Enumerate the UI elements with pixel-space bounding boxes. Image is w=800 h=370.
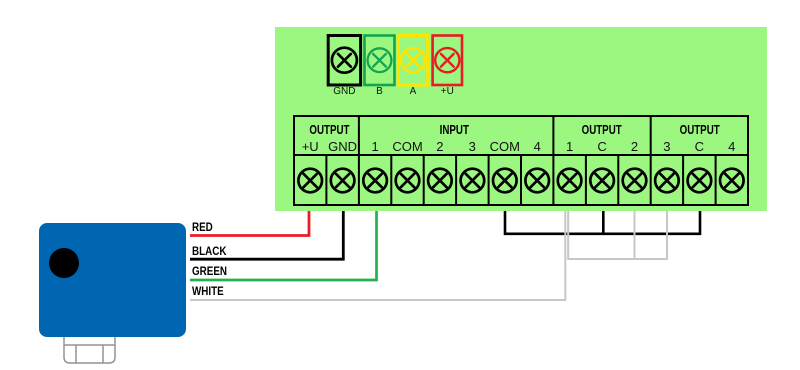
label terminal 3 1 <box>359 139 391 154</box>
screw cell divider 12 <box>682 155 684 205</box>
top terminal box B <box>365 36 395 86</box>
label terminal 9 1 <box>553 139 585 154</box>
blue sensor body <box>39 223 186 337</box>
label terminal 12 3 <box>651 139 683 154</box>
wire GREEN (sensor to terminal) <box>190 211 377 280</box>
top terminal box A <box>398 36 427 86</box>
terminal strip outer frame <box>294 116 748 205</box>
label top terminal +U <box>425 86 470 97</box>
screw terminal 3 (1) <box>363 169 387 193</box>
label group header OUTPUT (8-11) <box>564 123 640 137</box>
screw cell divider 6 <box>488 155 490 205</box>
screw terminal 10 (C) <box>590 169 614 193</box>
screw cell divider 9 <box>585 155 587 205</box>
label top terminal A <box>390 86 435 97</box>
screw terminal 7 (COM) <box>493 169 517 193</box>
label terminal 2 GND <box>326 139 358 154</box>
wire BLACK (sensor to terminal) <box>190 211 343 259</box>
screw cell divider 3 <box>390 155 392 205</box>
screw terminal 11 (2) <box>623 169 647 193</box>
label wire WHITE <box>192 284 224 298</box>
label terminal 1 +U <box>294 139 326 154</box>
screw cell divider 10 <box>617 155 619 205</box>
label terminal 13 C <box>683 139 715 154</box>
label group header INPUT (2-8) <box>379 123 531 137</box>
group divider at cell 2 <box>358 116 360 205</box>
label terminal 10 C <box>586 139 618 154</box>
label group header OUTPUT (0-2) <box>304 123 355 137</box>
screw terminal 14 (4) <box>720 169 744 193</box>
screw cell divider 5 <box>455 155 457 205</box>
screw cell divider 4 <box>423 155 425 205</box>
screw cell divider 7 <box>520 155 522 205</box>
label top terminal GND <box>320 86 368 97</box>
wire gray jumper bus (1-2-3) <box>568 211 667 259</box>
label terminal 14 4 <box>716 139 748 154</box>
screw terminal 2 (GND) <box>331 169 355 193</box>
wire black jumper bus (COM-C-C) <box>505 211 700 234</box>
label wire RED <box>192 220 213 234</box>
label top terminal B <box>357 86 403 97</box>
screw cell divider 1 <box>325 155 327 205</box>
label terminal 6 3 <box>456 139 488 154</box>
screw terminal 1 (+U) <box>298 169 322 193</box>
screw cell divider 13 <box>715 155 717 205</box>
label terminal 11 2 <box>618 139 650 154</box>
top terminal box +U <box>433 36 462 86</box>
screw terminal 8 (4) <box>525 169 549 193</box>
label terminal 7 COM <box>489 139 521 154</box>
wire WHITE (sensor to terminal) <box>190 211 565 300</box>
label terminal 5 2 <box>424 139 456 154</box>
label wire GREEN <box>192 264 227 278</box>
screw terminal 12 (3) <box>655 169 679 193</box>
screw terminal 4 (COM) <box>396 169 420 193</box>
terminal strip label/screw divider line <box>294 154 748 156</box>
screw terminal 13 (C) <box>688 169 712 193</box>
label wire BLACK <box>192 244 226 258</box>
green terminal panel background <box>275 27 767 211</box>
label terminal 8 4 <box>521 139 553 154</box>
group divider at cell 8 <box>552 116 554 205</box>
screw terminal 6 (3) <box>461 169 485 193</box>
label group header OUTPUT (11-14) <box>661 123 737 137</box>
top terminal box GND <box>328 36 360 86</box>
label terminal 4 COM <box>391 139 423 154</box>
sensor cable connector outline <box>64 337 115 363</box>
group divider at cell 11 <box>650 116 652 205</box>
screw terminal 9 (1) <box>558 169 582 193</box>
sensor lens (black circle) <box>49 248 79 278</box>
wire RED (sensor to terminal) <box>190 211 309 236</box>
screw terminal 5 (2) <box>428 169 452 193</box>
